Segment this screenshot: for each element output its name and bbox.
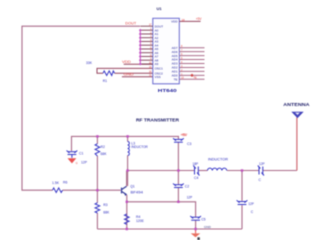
svg-text:Q1: Q1: [130, 184, 135, 188]
svg-text:C: C: [259, 178, 262, 182]
svg-text:1.5K: 1.5K: [52, 181, 60, 185]
svg-text:R3: R3: [103, 203, 107, 207]
ground arrow bottom: [195, 229, 197, 233]
svg-text:C1: C1: [79, 152, 83, 156]
capacitor C5: [190, 216, 201, 220]
svg-text:12P: 12P: [81, 160, 88, 164]
svg-text:OSC1: OSC1: [155, 67, 164, 71]
svg-text:INDUCTOR: INDUCTOR: [208, 158, 229, 162]
svg-text:12P: 12P: [259, 162, 265, 166]
wire bottom rail: [97, 228, 242, 230]
svg-text:12P: 12P: [248, 202, 254, 206]
IC pin left stubs + bus: [140, 26, 153, 64]
wire base net right of R6: [63, 189, 121, 191]
svg-text:U1: U1: [157, 6, 163, 11]
junction dots magenta: [96, 135, 243, 230]
svg-text:+5V: +5V: [196, 17, 203, 21]
svg-text:C5: C5: [201, 217, 205, 221]
transistor Q1 BF494: [122, 186, 127, 194]
wire right vertical branch: [241, 171, 243, 201]
wire +5V top rail: [72, 136, 180, 151]
resistor R4: [125, 214, 130, 224]
svg-text:+5V: +5V: [182, 133, 189, 137]
wire VDD +5V: [179, 20, 200, 22]
bus A0-A9: [139, 30, 141, 64]
wire emitter branch: [127, 202, 196, 217]
svg-text:DOUT: DOUT: [125, 21, 137, 25]
capacitor C3: [173, 138, 184, 142]
capacitor C1: [67, 151, 78, 158]
capacitor C2: [173, 184, 184, 188]
resistor R2: [96, 136, 98, 143]
resistor R6: [53, 188, 63, 193]
svg-text:BF494: BF494: [131, 191, 144, 195]
svg-text:A9: A9: [155, 62, 159, 66]
svg-text:120E: 120E: [136, 219, 145, 223]
inductor L2: [208, 168, 227, 170]
capacitor C 12P right: [237, 200, 248, 204]
ground arrow below C1: [68, 158, 77, 163]
resistor R1: [103, 71, 115, 76]
svg-text:18P: 18P: [193, 162, 199, 166]
svg-text:R1: R1: [103, 79, 107, 83]
svg-text:ANTENNA: ANTENNA: [283, 102, 310, 107]
wire A9/VDD stub: [124, 63, 154, 65]
svg-text:VDD: VDD: [122, 60, 131, 64]
svg-text:12P: 12P: [187, 195, 193, 199]
wire C3/C2 column: [177, 136, 179, 139]
IC U1 HT640 box: [153, 18, 180, 84]
pin numbers right: [181, 45, 184, 80]
svg-text:C3: C3: [187, 142, 191, 146]
svg-text:GND: GND: [124, 72, 135, 76]
oscillator loop wires: [97, 68, 153, 73]
svg-text:R6: R6: [63, 181, 67, 185]
svg-text:68K: 68K: [101, 152, 108, 156]
svg-text:TE: TE: [174, 78, 178, 82]
IC left pin labels: [155, 24, 164, 78]
svg-text:18: 18: [182, 18, 186, 22]
inductor L3: [127, 136, 129, 141]
svg-text:VDD: VDD: [171, 20, 178, 24]
svg-text:VSS: VSS: [155, 75, 161, 79]
svg-text:HT640: HT640: [158, 88, 178, 93]
junction TE wire: [190, 74, 193, 77]
IC right pin labels: [171, 20, 178, 82]
capacitor C (antenna series): [258, 166, 264, 176]
svg-text:RF TRANSMITTER: RF TRANSMITTER: [136, 118, 180, 123]
svg-text:GND: GND: [204, 225, 211, 229]
IC right AD wires: [179, 48, 204, 80]
svg-text:R2: R2: [101, 145, 105, 149]
wire antenna vertical: [296, 117, 298, 170]
svg-text:G: G: [76, 161, 78, 165]
svg-text:TE: TE: [193, 76, 197, 80]
svg-text:C4: C4: [194, 176, 198, 180]
wire VSS stub: [122, 76, 153, 78]
capacitor C4: [193, 166, 199, 176]
svg-text:C2: C2: [185, 185, 189, 189]
svg-text:68K: 68K: [103, 210, 110, 214]
svg-text:C: C: [251, 210, 254, 214]
svg-text:INDUCTOR: INDUCTOR: [131, 145, 148, 149]
svg-text:33K: 33K: [86, 61, 93, 65]
wire collector net / main RF line: [128, 170, 194, 172]
pin numbers left: [149, 24, 152, 78]
resistor R3: [96, 190, 98, 203]
antenna symbol: [292, 112, 302, 117]
wire DOUT net: [22, 26, 140, 190]
